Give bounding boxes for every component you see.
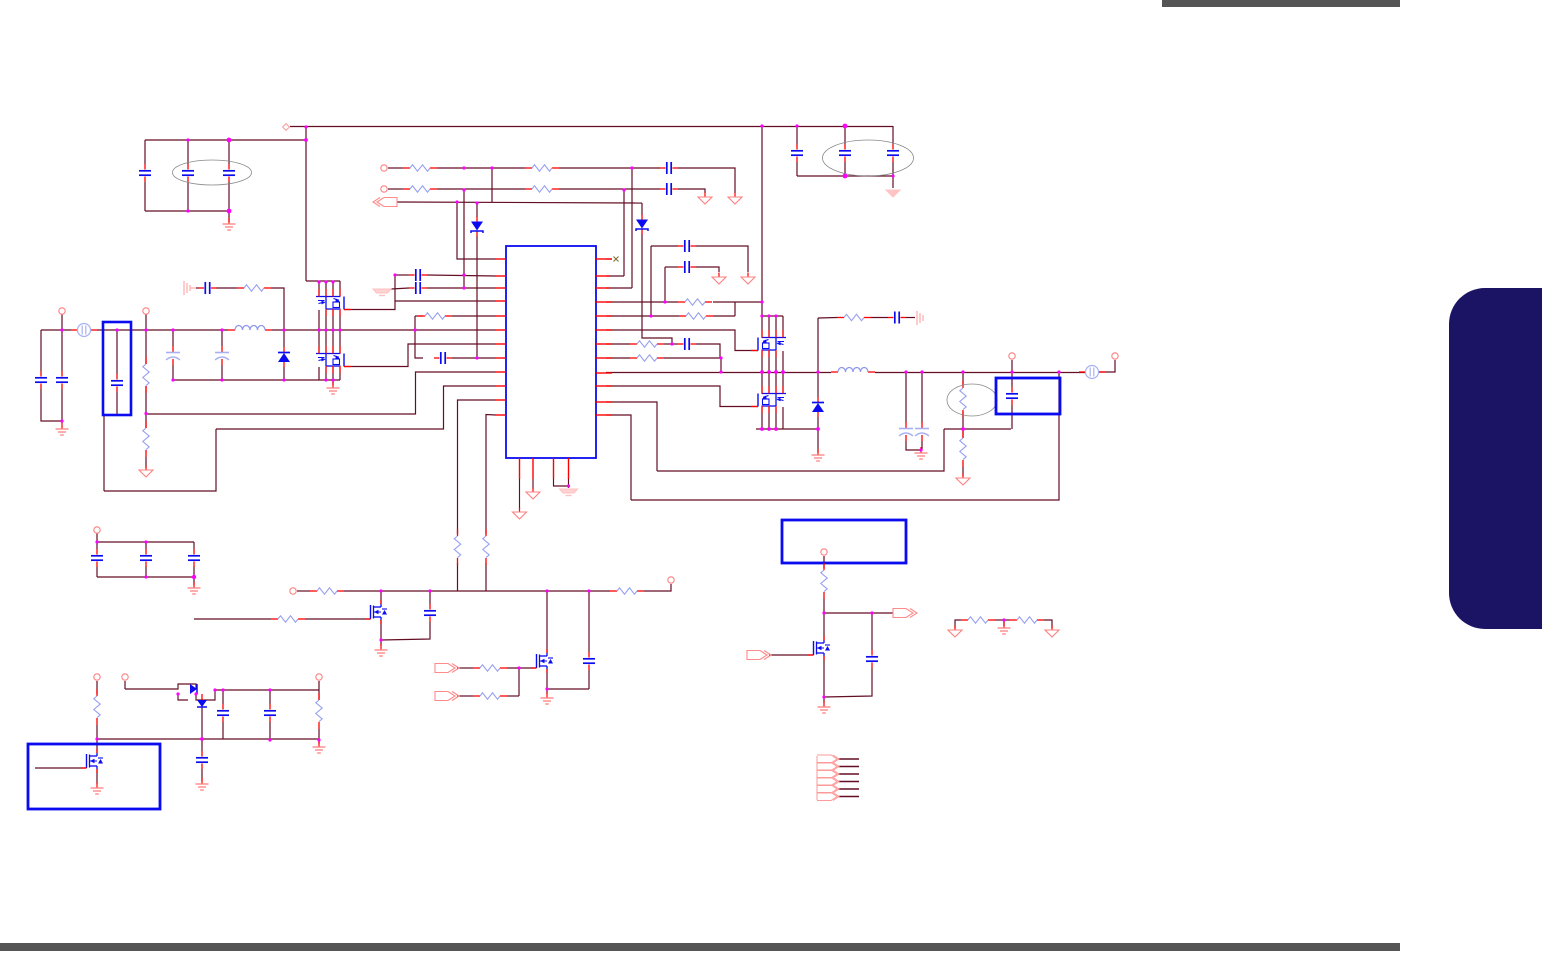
wire diode x477 to row8L: [476, 236, 478, 358]
resistor R24: [821, 563, 827, 599]
wire TR ground stub: [892, 176, 894, 188]
wire gnd8 stub: [193, 577, 195, 585]
wire gate node vert: [518, 668, 520, 696]
wire R23 bot: [318, 729, 320, 744]
wire row8R mid: [664, 357, 721, 359]
wire R15 to arrow: [962, 467, 964, 476]
wire row y190 to corner: [678, 189, 705, 193]
junction 762,126: [760, 124, 763, 127]
ground left caps: [56, 423, 69, 435]
box BX2 output connector: [996, 378, 1060, 414]
port P11: [122, 674, 128, 680]
capacitor C2: [182, 164, 194, 182]
junction 1012,372: [1010, 370, 1013, 373]
wire C4 upper: [796, 126, 798, 144]
port P13: [821, 549, 827, 555]
wire R22 to node: [96, 725, 98, 753]
thermistor TH1 ellipse: [947, 384, 997, 416]
wire box1 cap top: [116, 330, 118, 374]
junction 381,640: [379, 638, 382, 641]
junction 188,211: [186, 209, 189, 212]
port P5: [1112, 353, 1118, 359]
junction 457,202: [455, 200, 458, 203]
resistor R22: [94, 689, 100, 725]
junction 651,316: [649, 314, 652, 317]
capacitor C28: [866, 650, 878, 668]
junction 872,613: [870, 611, 873, 614]
power arrow divider R: [1045, 626, 1059, 638]
wire bank vert d3: [332, 367, 334, 380]
capacitor C26: [217, 704, 229, 722]
capacitor C1: [139, 164, 151, 182]
wire M3 gnd stub: [380, 640, 382, 646]
wire R9 to arrow: [145, 457, 147, 468]
wire row y168 to corner: [678, 168, 735, 193]
wire main bus y330 seg2: [97, 329, 228, 331]
resistor R2: [525, 165, 559, 171]
wire R7 to y592: [485, 563, 487, 591]
mosfet pair Q3 right top: [751, 330, 786, 357]
wire conn w4: [838, 781, 859, 783]
wire RC2 mid: [871, 317, 888, 319]
junction 194,577: [192, 575, 196, 579]
ground EMI: [223, 218, 236, 230]
junction 769,316: [767, 314, 770, 317]
diamond port top: [283, 124, 290, 131]
wire C5 lower: [844, 162, 846, 176]
wire rbank vert b1: [761, 351, 763, 393]
ground left rail: [327, 382, 340, 394]
resistor R3: [403, 186, 437, 192]
wire conn w2: [838, 766, 859, 768]
junction 326,380: [324, 378, 327, 381]
wire RC2 row: [818, 317, 837, 320]
wire flag row y202: [397, 202, 642, 203]
wire C20 bot: [96, 567, 98, 577]
wire bank vert c1: [318, 330, 320, 353]
junction 783,372: [781, 370, 785, 374]
wire row4R right: [713, 301, 762, 303]
wire divider right: [1044, 620, 1052, 628]
resistor R10: [678, 299, 712, 305]
wire D4 bottom: [817, 417, 819, 429]
port P10: [94, 674, 100, 680]
wire subckt y542: [97, 541, 194, 543]
wire M5 gate lead: [35, 767, 87, 769]
junction 222,330: [220, 328, 223, 331]
junction 117,330: [115, 328, 118, 331]
junction 477,203: [475, 201, 478, 204]
resistor R12: [630, 341, 664, 347]
wire y591 right: [644, 584, 671, 591]
capacitor C20: [91, 549, 103, 567]
net flag F4: [893, 609, 917, 618]
junction 906,372: [904, 370, 907, 373]
power arrow A4: [712, 273, 726, 285]
wire M6 source: [823, 656, 825, 703]
wire bank vert a4: [339, 281, 341, 296]
wire vert x721: [720, 358, 722, 372]
capacitor C15: [678, 261, 696, 273]
capacitor C snub: [199, 282, 217, 294]
wire R9 link: [145, 414, 147, 428]
power arrow divider L: [948, 626, 962, 638]
junction 319,330: [317, 328, 320, 331]
junction 632,168: [630, 166, 633, 169]
junction 146,542: [144, 540, 147, 543]
wire bank vert b2: [325, 310, 327, 330]
wire output rail y380: [173, 379, 340, 381]
wire ecap CE2 low: [221, 365, 223, 380]
junction 845,126: [843, 124, 848, 129]
junction 776,429: [774, 427, 778, 431]
wire divider mid: [995, 619, 1010, 621]
fuse FU1: [71, 324, 97, 337]
wire C4 lower: [796, 162, 798, 176]
junction 381,591: [379, 589, 382, 592]
junction 229,211: [227, 209, 232, 214]
wire R8 top: [145, 330, 147, 364]
wire C24 top: [588, 591, 590, 652]
box BX3: [28, 744, 160, 809]
wire box1 cap bottom: [116, 392, 118, 415]
wire box2 cap bottom: [1011, 405, 1013, 429]
capacitor C6: [887, 144, 899, 162]
ground subckt1: [188, 582, 201, 594]
junction 196,694: [194, 692, 197, 695]
wire y613: [824, 612, 872, 614]
wire flag F3 lead: [457, 695, 473, 697]
wire row10L drop: [216, 386, 496, 429]
junction 922,372: [920, 370, 923, 373]
junction 1059,372: [1057, 370, 1060, 373]
wire row12L drop: [486, 415, 496, 535]
ellipse marker E1: [173, 160, 252, 185]
wire R18 to node: [344, 590, 381, 592]
junction 893,176: [891, 174, 894, 177]
wire top EMI rail: [145, 139, 306, 141]
port P1: [381, 165, 387, 171]
wire D4 gnd stub: [817, 429, 819, 452]
wire R23 top: [318, 690, 320, 700]
wire x216 drop: [104, 429, 216, 491]
wire flag F2 lead: [457, 667, 473, 669]
wire rbank vert b3: [775, 351, 777, 393]
ellipse marker E2: [823, 140, 914, 176]
box BX1 input connector: [103, 322, 131, 415]
power arrow R9: [139, 466, 153, 478]
junction 818,429: [816, 427, 820, 431]
power arrow A6: [956, 474, 970, 486]
resistor R9: [143, 421, 149, 457]
wire C17 to x720: [696, 344, 720, 358]
ecap CE1: [166, 346, 180, 365]
resistor R23: [316, 693, 322, 729]
capacitor C25: [196, 751, 208, 769]
wire row3R: [606, 287, 632, 289]
wire row5R: [606, 315, 679, 317]
capacitor C21: [140, 549, 152, 567]
junction 215,690: [213, 688, 216, 691]
wire RC2 riser: [817, 318, 819, 372]
capacitor C22: [188, 549, 200, 567]
wire rbank vert a3: [775, 316, 777, 337]
junction 464,275: [462, 273, 465, 276]
port P3: [59, 308, 65, 314]
resistor R14: [837, 314, 871, 320]
wire conn w5: [838, 788, 859, 790]
wire subckt y577: [97, 576, 194, 578]
wire row4L: [395, 300, 496, 303]
IC U1 left pins: [496, 259, 506, 415]
ground right rail: [812, 449, 825, 461]
capacitor C14: [56, 371, 68, 389]
junction 963,372: [961, 370, 964, 373]
wire row y190 right: [559, 188, 660, 190]
junction 797,126: [795, 124, 798, 127]
wire rail y429: [756, 428, 818, 430]
wire P13 stub: [823, 556, 825, 568]
wire top main rail: [290, 126, 893, 128]
IC bottom pin3 link: [554, 479, 569, 486]
resistor R26: [1010, 617, 1044, 623]
wire TR bottom rail: [797, 175, 893, 177]
wire y471: [657, 429, 944, 471]
power arrow A2: [698, 193, 712, 205]
capacitor C4: [791, 144, 803, 162]
resistor R13: [630, 355, 664, 361]
junction 284,330: [282, 328, 285, 331]
wire bank vert a1: [318, 281, 320, 296]
wire C15 left: [665, 266, 678, 268]
port P4: [143, 308, 149, 314]
power arrow pin b1: [513, 508, 527, 520]
wire D3 bottom: [283, 367, 285, 380]
ground M4: [541, 692, 554, 704]
wire cap C14 branch: [61, 330, 63, 371]
wire M6 drain: [823, 613, 825, 640]
wire M5 source: [96, 769, 98, 784]
wire boot diode upper: [641, 203, 643, 215]
wire diode x477 drop: [476, 203, 478, 217]
wire main bus y330 left: [41, 329, 71, 331]
wire R15 link: [962, 429, 964, 438]
junction 824,697: [822, 695, 825, 698]
diode D2: [471, 217, 483, 237]
wire thermistor top: [962, 372, 964, 385]
ground M3: [375, 644, 388, 656]
junction 568.5,486: [567, 484, 570, 487]
wire row y190: [388, 188, 403, 190]
junction 319,282: [317, 280, 320, 283]
capacitor C24: [583, 652, 595, 670]
junction 1004,620: [1002, 618, 1005, 621]
wire C1 lower: [144, 182, 146, 211]
net flag F2: [435, 664, 459, 673]
diode D3: [278, 347, 290, 367]
wire row2L cap to IC: [427, 275, 496, 276]
wire y689 right: [215, 689, 319, 691]
resistor R20: [473, 665, 507, 671]
junction 270,740: [268, 738, 271, 741]
wire P8 link: [297, 590, 310, 592]
wire vert x665: [664, 267, 666, 302]
wire rbank vert c1: [761, 407, 763, 429]
wire rbank vert a1: [761, 316, 763, 337]
wire cap x429: [429, 591, 431, 604]
port P12: [316, 674, 322, 680]
junction 229,140: [227, 138, 232, 143]
junction 188,140: [186, 138, 189, 141]
wire C21 bot: [145, 567, 147, 577]
ecap E3: [899, 422, 913, 441]
junction 845,176: [843, 174, 848, 179]
wire row7R: [606, 343, 630, 345]
junction 222,380: [220, 378, 223, 381]
wire row12R: [606, 415, 631, 500]
fuse FU2: [1079, 366, 1105, 379]
wire C6 lower: [892, 162, 894, 176]
pale triangle ground TR: [886, 190, 900, 197]
junction 477,358: [475, 356, 478, 359]
junction 721,358: [719, 356, 722, 359]
right side navy tab: [1449, 288, 1542, 629]
mosfet pair Q2 left bottom: [316, 346, 351, 373]
wire port P3 stub: [61, 314, 63, 330]
wire ecap E4 bot: [921, 441, 923, 450]
mosfet M6: [808, 636, 830, 660]
wire bank vert c2: [325, 330, 327, 353]
capacitor C23: [424, 604, 436, 622]
mosfet pair Q1 left top: [316, 289, 351, 316]
wire cap x429 low: [381, 622, 430, 640]
wire row8L: [452, 357, 496, 359]
wire ecap E3 top: [905, 372, 907, 422]
ground R23: [313, 741, 326, 753]
capacitor C10: [409, 282, 427, 294]
mosfet M5: [81, 749, 103, 773]
IC U1 main controller: [506, 246, 596, 458]
IC bottom pin1 drop: [519, 479, 521, 509]
junction 492,168: [490, 166, 493, 169]
wire C15 right: [696, 267, 719, 272]
wire rbank vert c3: [775, 407, 777, 429]
junction 284,380: [282, 378, 285, 381]
port P7: [94, 527, 100, 533]
wire row7L gate2: [344, 344, 496, 367]
wire y591 main: [430, 590, 610, 592]
wire row2L cap left: [395, 274, 409, 276]
junction 762,429: [760, 427, 764, 431]
junction 333,282: [331, 280, 334, 283]
power arrow A1: [728, 193, 742, 205]
wire P10 stub: [96, 681, 98, 694]
junction 921,450: [919, 448, 922, 451]
wire RC to bus: [271, 288, 284, 330]
capacitor C11: [434, 352, 452, 364]
NC cross pin1R: [614, 257, 619, 262]
wire D4 top: [817, 372, 819, 397]
resistor R21: [473, 693, 507, 699]
wire C22 bot: [193, 567, 195, 577]
capacitor C9: [409, 269, 427, 281]
wire C3 lower: [228, 182, 230, 211]
wire left bank gnd stub: [332, 380, 334, 385]
junction 776,372: [774, 370, 778, 374]
wire thermistor bot: [962, 412, 964, 429]
junction 333,380: [331, 378, 334, 381]
wire y316 link: [762, 315, 783, 317]
wire vert x632: [631, 168, 633, 288]
wire bank vert c4: [339, 330, 341, 353]
wire rbank vert a4: [782, 316, 784, 337]
junction 415,330: [413, 328, 416, 331]
capacitor C7: [660, 162, 678, 174]
wire row11R: [606, 402, 657, 471]
junction 464,190: [462, 188, 465, 191]
junction 464,168: [462, 166, 465, 169]
wire bank vert b1: [318, 310, 320, 330]
ground output caps: [915, 447, 928, 459]
wire bank vert b4: [339, 310, 341, 330]
junction 395,275: [393, 273, 396, 276]
wire C26 bot: [222, 722, 224, 739]
wire cap C13 bottom: [41, 389, 62, 421]
junction 202,739: [200, 737, 204, 741]
junction 762,302: [760, 300, 763, 303]
ecap E4: [915, 422, 929, 441]
resistor R18: [310, 588, 344, 594]
junction 333,330: [331, 328, 334, 331]
wire y429 seg: [944, 428, 1011, 430]
capacitor C16: [678, 240, 696, 252]
wire bank vert b3: [332, 310, 334, 330]
wire dpack bottom: [201, 707, 203, 739]
wire riser x306: [305, 127, 307, 281]
resistor R17 gate row: [271, 616, 305, 622]
net flag F3: [435, 692, 459, 701]
ground C25: [196, 778, 209, 790]
wire vert x457 pin1L: [457, 202, 496, 259]
diode pack DP1: [173, 684, 215, 707]
wire C2 lower: [187, 182, 189, 211]
capacitor C3: [223, 164, 235, 182]
IC bottom pin2 drop: [532, 479, 534, 489]
capacitor C8: [660, 183, 678, 195]
wire row8R: [606, 357, 630, 359]
diode D1 boot: [636, 215, 648, 235]
wire P12 stub: [318, 681, 320, 690]
wire rbank vert b4: [782, 351, 784, 393]
diode D4: [812, 397, 824, 417]
junction 146,577: [144, 575, 147, 578]
junction 223,690: [221, 688, 224, 691]
wire divider left tri: [955, 620, 961, 628]
wire C2 upper: [187, 140, 189, 164]
junction 173,380: [171, 378, 174, 381]
capacitor C13: [35, 371, 47, 389]
wire y689 left: [125, 688, 173, 690]
mosfet M4: [531, 649, 553, 673]
capacitor C27: [264, 704, 276, 722]
capacitor C12: [111, 374, 123, 392]
junction 672,344: [670, 342, 673, 345]
junction 624,190: [622, 188, 625, 191]
wire row1R NC: [606, 258, 612, 260]
wire row5L left: [415, 315, 423, 317]
junction 270,690: [268, 688, 271, 691]
resistor R5: [418, 313, 452, 319]
